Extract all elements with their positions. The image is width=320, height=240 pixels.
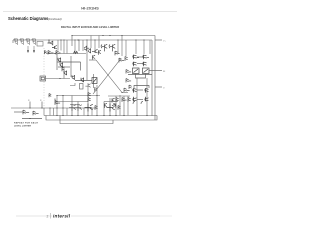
wire input [46,78,71,80]
transistor Q10 [101,44,107,51]
dashed divider [43,48,45,110]
left bias current sources [14,39,36,53]
resistor box R3 [92,78,97,84]
top middle transistor cluster [74,44,128,62]
wire block top y85.5 [134,86,149,89]
wire v91 [90,36,92,49]
wire row link2 [137,63,143,65]
wire X feed [89,59,96,61]
wire y62 [57,61,81,63]
wire x87 mid [86,48,88,80]
wire v88b [87,83,89,96]
transistor Q23x [49,93,51,97]
transistor Q8 [88,48,91,53]
svg-text:HI-201HS: HI-201HS [81,5,99,10]
transistor Q16 [58,58,61,63]
transistor Q30 [133,97,137,102]
upper mid-level wires around y85-95 [70,83,97,96]
svg-text:(Continued): (Continued) [48,17,62,21]
transistor Q9b [93,55,96,59]
resistor bump 3 [26,39,30,40]
transistor Q3 [27,40,29,45]
wire top rail V+ y40 [13,39,152,41]
wire pair link2 [137,99,143,101]
transistor Q27b [95,106,98,110]
resistor zigzag R5 [74,51,78,53]
wire v58 [57,40,59,51]
wire v83 [82,40,84,51]
resistor diag R3 [93,79,97,83]
svg-text:LEVEL LIMITER: LEVEL LIMITER [14,126,31,128]
wire y67 [58,66,70,68]
wire v92 [91,108,93,116]
transistor Q28 [112,98,115,102]
header rule [3,11,177,13]
transistor Q28d [128,98,131,102]
wire y53.5 [46,53,86,55]
wire y95.5 [57,95,100,97]
transistor Q6c [56,51,61,55]
transistor Q1 [15,40,17,45]
transistor Q35 [85,84,90,88]
transistor Q17 [64,70,67,75]
resistor bump 2 [20,39,24,40]
transistor Q27c [105,103,107,108]
resistor box R2 [143,68,150,74]
transistor Q29 [133,88,137,93]
footer rule [16,215,160,217]
transistor Q32 [145,97,149,102]
wire v63 [62,96,64,116]
transistor Q11c [119,58,124,62]
transistor Q5 [48,40,53,45]
wire y101.5 [55,101,88,103]
transistor Q28b [116,98,119,102]
transistor Q14 [133,62,137,67]
transistor Q23 [55,99,60,105]
wire v84 [83,108,85,116]
lower middle transistors [49,93,131,112]
wire v97b [96,85,98,96]
top cluster transistors x46-67 [45,40,61,55]
wire stub x30 [29,102,31,109]
wire x78 bottom [77,102,79,116]
transistor Q7 [84,46,89,51]
verticals from rails [58,36,150,57]
wire v144 [143,40,145,54]
transistor Q6d [45,51,47,55]
wire v75 [74,40,76,54]
wire x80.5 [80,62,82,71]
bottom-left input clamp cluster [14,100,64,119]
transistor Q36 [95,87,98,91]
transistor Q9 [92,49,98,53]
transistor Q26 cross [85,104,93,112]
transistor Q22 [124,88,130,92]
wire y74 [128,74,152,76]
emitter marks right of X [124,70,132,93]
junction dots bottom rail [48,53,147,116]
svg-text:DIGITAL INPUT BUFFER AND LEVEL: DIGITAL INPUT BUFFER AND LEVEL LIMITER [61,25,119,29]
wire v126 [125,40,127,56]
footer divider bar [50,213,52,219]
transistor Q34 [33,111,39,115]
svg-text:V-: V- [163,88,165,90]
transistor Q11d [125,57,128,61]
wire y80.5 [75,80,92,82]
transistor Q12 [133,55,139,60]
transistor Q11 [109,44,115,51]
wire x93.5 mid [93,74,95,88]
wire v64b [63,67,65,75]
wire Q3 out [27,46,29,51]
wire pair link1 [137,89,143,91]
transistor Q21 [126,79,131,83]
wire v104 [103,102,105,116]
wire v124 [123,96,125,116]
wire top rail2 y35.5 [72,35,155,37]
wire v67b [66,108,68,116]
transistor Q22b [129,85,132,89]
resistor box R4 [80,84,84,90]
transistor Q27 cross [107,104,115,112]
transistor Q24 [88,93,91,97]
transistor Q13 [143,55,149,60]
wire v116 [115,96,117,116]
wire v67 [66,40,68,54]
wire v150 [149,40,151,54]
wire v147 [146,78,148,116]
transistor Q27d [113,103,115,108]
cross coupled wires X [89,59,122,95]
wire X leg 1 [96,60,122,93]
wire y104.5 [70,104,80,106]
wire v122 [121,36,123,57]
transistor Q31 [145,88,149,93]
transistor Q27e [118,105,120,109]
wire to bus y70 [149,70,162,72]
wire v110 [109,98,111,116]
arrow Q3 collector [27,51,29,53]
wire corner x75 [70,83,75,86]
wire hook1 [133,102,135,105]
wire v99 [98,36,100,49]
wire v44 [43,108,45,116]
transistor Q26b cross [75,104,82,111]
wire block bottom [136,74,146,79]
resistor box R1 [133,68,140,74]
wire bottom return y120 [46,116,157,121]
wire v137 [136,78,138,116]
transistor Q4 [33,40,35,45]
input pad box [40,75,70,81]
transistor Q11b [115,51,120,55]
resistor bump 4 [32,39,36,40]
transistor Q33 [23,110,29,114]
wire stub x42 [41,102,43,109]
svg-text:Schematic Diagrams: Schematic Diagrams [8,16,49,21]
transistor Q20 [126,70,131,74]
right lower block pairs [133,86,149,105]
wire bottom rail V- y115.5 [44,115,157,117]
wire y101.5 right [104,101,118,103]
transistor Q15 [143,62,147,67]
wire left rail stub [12,40,14,43]
transistor Q6 [52,46,57,50]
wire y92.5 [122,92,128,94]
svg-text:intersil: intersil [53,214,71,219]
arrow Q4 collector [33,51,35,53]
svg-text:REPEAT FOR EACH: REPEAT FOR EACH [14,122,38,125]
wire y96 right [108,95,130,97]
right upper block transistor pairs [128,40,166,90]
wire v87 [86,40,88,48]
wire input drop [63,75,65,79]
wire right bus x155 [154,36,156,121]
wire right bus x152 [151,40,153,116]
wire x72 top [71,36,73,47]
wire v118 [117,40,119,54]
pin stub y40 [155,39,162,41]
box label near input top [37,42,43,47]
transistor Q17b [62,67,64,71]
middle cascade of transistors [57,54,97,84]
wire x72 bottom [71,96,73,116]
wire y118.5 [22,118,42,120]
wire Q4 out [33,46,35,51]
intersil logo [52,212,71,219]
wire v53.5 [53,108,55,116]
transistor Q26a cross [69,104,76,111]
wire v57m [56,54,58,70]
wire v120 [119,95,121,116]
wire v95 [94,40,96,50]
box IN [40,76,46,81]
transistor Q25 [88,98,91,102]
transistor Q19 [81,77,84,82]
wire row link [137,56,143,58]
pin stub y87 [155,86,162,88]
wire v50 [49,108,51,116]
svg-text:2: 2 [47,215,49,219]
transistor Q6b [48,51,54,55]
junction dots on top rails [14,35,144,41]
wire v57 [56,96,58,116]
resistor diag R1 [134,69,139,73]
wire y112 [14,111,23,113]
transistor Q16b [60,62,63,67]
transistor Q28c [122,98,127,102]
resistor diag R2 [144,69,149,73]
wire bottom return y123.5 [60,116,113,124]
transistor Q18 [72,75,75,80]
lower middle wires [11,78,147,116]
wire v61 [60,40,62,51]
wire y108 full [11,107,97,109]
wire v128 [127,96,129,116]
wire v64 [63,40,65,54]
transistor Q9c [99,50,101,54]
resistor bump 1 [14,39,18,40]
wire v88 [87,96,89,116]
wire x71 mid [70,56,72,77]
wire v136 [135,40,137,54]
wire v97 [96,96,98,116]
wire X leg 2 [93,59,121,95]
wire x79 top [78,40,80,51]
wire hook2 [141,102,143,105]
transistor Q2 [21,40,23,45]
